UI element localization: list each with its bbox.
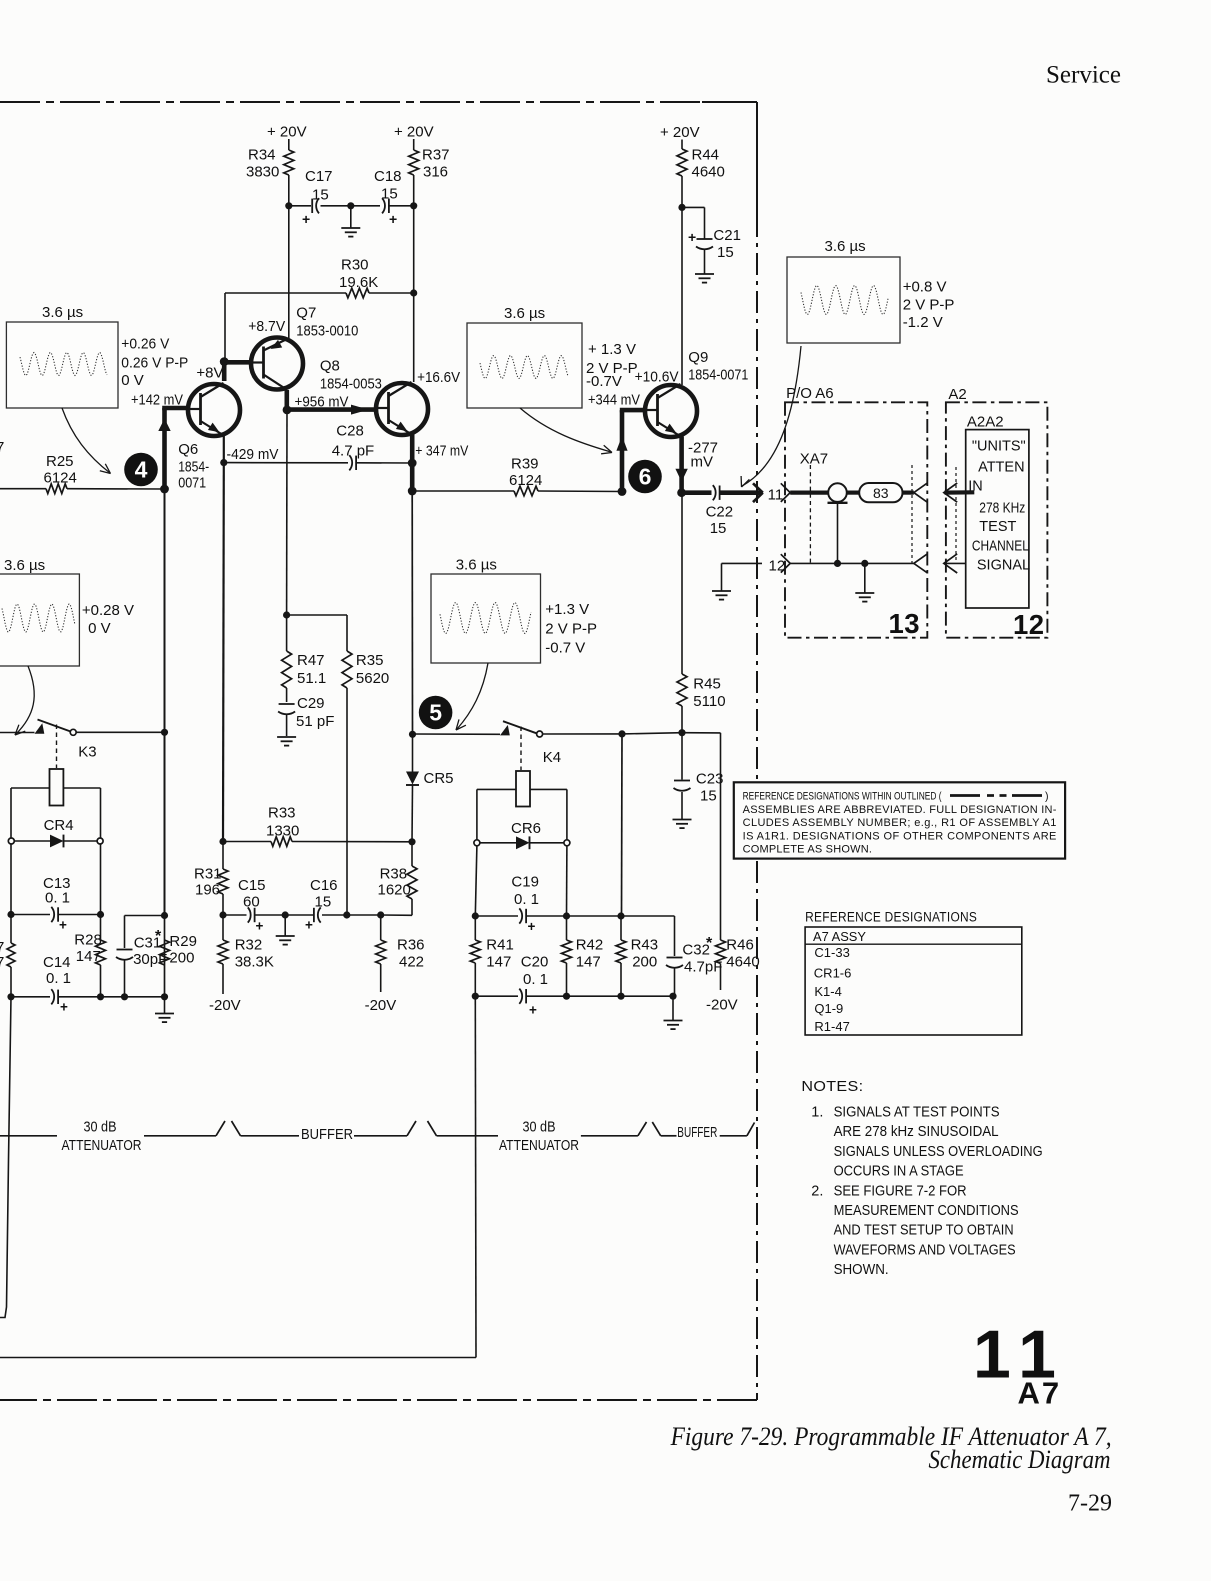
svg-text:R43: R43: [631, 937, 659, 954]
svg-text:R28: R28: [74, 932, 102, 949]
waveform box 3.6us +0.26V (TP4): [6, 304, 188, 408]
svg-text:IS A1R1. DESIGNATIONS OF OTHE: IS A1R1. DESIGNATIONS OF OTHER COMPONENT…: [743, 830, 1057, 842]
resistor R27 (cut at page edge): [0, 915, 15, 997]
svg-text:5110: 5110: [693, 693, 725, 710]
bracket lines section 2: [354, 1121, 498, 1136]
assembly box P/O A6: [785, 385, 927, 638]
svg-text:2 V P-P: 2 V P-P: [903, 297, 955, 314]
bracket lines section 3: [581, 1122, 677, 1136]
node +20V (R44): [660, 124, 700, 149]
svg-text:147: 147: [486, 954, 511, 971]
resistor R28 147: [74, 915, 105, 997]
relay contact K4: [413, 721, 626, 766]
svg-text:XA7: XA7: [800, 451, 828, 468]
svg-text:CR1-6: CR1-6: [814, 966, 852, 981]
svg-text:BUFFER: BUFFER: [301, 1126, 353, 1143]
svg-text:A7: A7: [1018, 1376, 1062, 1411]
svg-text:+: +: [302, 211, 310, 227]
label buffer 2: [677, 1124, 717, 1141]
assembly box A2: [946, 386, 1048, 638]
resistor R41 147: [470, 916, 514, 996]
capacitor C22 15: [706, 485, 734, 537]
svg-text:+16.6V: +16.6V: [417, 369, 460, 386]
svg-text:Q8: Q8: [320, 358, 340, 375]
wire pin11 inside A6 (thick): [790, 491, 859, 495]
svg-text:Q7: Q7: [296, 305, 316, 322]
svg-text:-20V: -20V: [209, 997, 241, 1014]
capacitor C23 15: [674, 733, 724, 819]
svg-text:15: 15: [381, 186, 398, 203]
svg-text:R25: R25: [46, 453, 74, 470]
svg-text:ATTENUATOR: ATTENUATOR: [62, 1137, 142, 1154]
wire Q6 collector to Q7 base +8V (thick): [220, 357, 251, 381]
A2 input pins: [944, 483, 975, 573]
resistor R38 1620: [378, 842, 418, 916]
wire left pad column down to page bottom: [0, 997, 11, 1318]
svg-text:0. 1: 0. 1: [46, 970, 71, 987]
svg-text:+ 20V: + 20V: [394, 124, 434, 141]
capacitor C32* 4.7pF: [666, 935, 722, 996]
coax shield symbol: [828, 483, 848, 567]
resistor R29 200: [160, 933, 197, 967]
svg-text:15: 15: [710, 520, 727, 537]
svg-text:2 V P-P: 2 V P-P: [545, 621, 597, 638]
ground (C21): [695, 274, 714, 283]
wire bottom left return: [0, 1357, 476, 1359]
resistor R35 5620: [342, 615, 389, 915]
test point 6: [628, 460, 662, 494]
svg-text:Service: Service: [1046, 62, 1121, 89]
svg-text:-1.2 V: -1.2 V: [903, 314, 943, 331]
node +10.6V: [635, 369, 679, 386]
svg-text:R30: R30: [341, 257, 369, 274]
resistor R43 200: [616, 734, 658, 996]
pointer arrow waveform to K3: [15, 666, 34, 735]
svg-text:CR5: CR5: [424, 770, 454, 787]
svg-text:C1-33: C1-33: [814, 945, 849, 960]
resistor R47 51.1: [282, 615, 327, 688]
svg-text:30 dB: 30 dB: [523, 1119, 556, 1136]
svg-text:R35: R35: [356, 652, 384, 669]
svg-text:-20V: -20V: [706, 997, 738, 1014]
svg-text:15: 15: [717, 244, 734, 261]
node +20V (R34): [267, 124, 307, 151]
svg-text:ATTENUATOR: ATTENUATOR: [499, 1137, 579, 1154]
wire CR6 to C19 row: [475, 846, 567, 916]
svg-text:Q9: Q9: [688, 349, 708, 366]
wire CR4 to C13 row: [11, 844, 101, 915]
svg-text:+: +: [305, 918, 313, 933]
svg-text:COMPLETE AS SHOWN.: COMPLETE AS SHOWN.: [743, 844, 873, 856]
assembly boundary dash-dot border bottom: [0, 1399, 757, 1401]
svg-text:1854-: 1854-: [178, 459, 209, 476]
svg-text:+: +: [256, 919, 264, 934]
svg-text:3.6 µs: 3.6 µs: [42, 304, 83, 321]
relay coil K3: [50, 725, 64, 806]
svg-text:NOTES:: NOTES:: [801, 1079, 863, 1095]
svg-text:+956 mV: +956 mV: [295, 394, 349, 411]
transistor Q7 1853-0010: [251, 305, 358, 390]
svg-text:19.6K: 19.6K: [339, 274, 378, 291]
svg-text:15: 15: [312, 187, 329, 204]
test point 4: [124, 453, 158, 487]
resistor R34 3830: [246, 147, 294, 206]
label 30 dB attenuator 1: [62, 1119, 142, 1155]
svg-text:7: 7: [0, 439, 4, 456]
svg-text:200: 200: [632, 954, 657, 971]
svg-text:SIGNALS UNLESS OVERLOADING: SIGNALS UNLESS OVERLOADING: [834, 1144, 1043, 1160]
svg-text:R37: R37: [422, 147, 450, 164]
svg-text:+0.28 V: +0.28 V: [82, 602, 134, 619]
svg-text:SIGNAL: SIGNAL: [977, 558, 1030, 574]
pointer arrow waveform to TP4: [62, 408, 111, 474]
svg-text:4640: 4640: [726, 954, 759, 971]
transistor Q8 1854-0053: [320, 358, 428, 436]
svg-text:ARE 278 kHz SINUSOIDAL: ARE 278 kHz SINUSOIDAL: [834, 1124, 999, 1140]
table reference designations: [805, 910, 1022, 1036]
svg-text:15: 15: [315, 894, 332, 911]
svg-text:C19: C19: [511, 874, 539, 891]
svg-text:5: 5: [429, 700, 442, 726]
svg-text:ATTEN: ATTEN: [978, 460, 1024, 476]
svg-text:TEST: TEST: [979, 519, 1016, 535]
wire Q8 emitter down (thick): [408, 434, 417, 496]
resistor R42 147: [562, 916, 604, 996]
svg-text:WAVEFORMS AND VOLTAGES: WAVEFORMS AND VOLTAGES: [834, 1242, 1016, 1258]
svg-text:0 V: 0 V: [121, 372, 144, 389]
svg-text:+10.6V: +10.6V: [635, 369, 679, 386]
pointer arrow waveform to pin 11 wire: [741, 346, 801, 487]
svg-text:R47: R47: [297, 652, 325, 669]
capacitor C29 51 pF: [278, 688, 334, 736]
svg-text:0. 1: 0. 1: [45, 890, 70, 907]
svg-text:C14: C14: [43, 954, 71, 971]
svg-text:7-29: 7-29: [1068, 1491, 1112, 1517]
svg-text:4.7 pF: 4.7 pF: [332, 443, 375, 460]
bracket lines section 1: [0, 1121, 299, 1136]
wire K4 coil terminals: [477, 789, 567, 840]
capacitor C21 15: [682, 207, 741, 273]
svg-text:C22: C22: [706, 504, 734, 521]
svg-text:R45: R45: [693, 676, 721, 693]
node +142 mV: [131, 392, 183, 409]
svg-text:5620: 5620: [356, 670, 389, 687]
svg-text:-429 mV: -429 mV: [227, 446, 279, 463]
svg-text:+: +: [389, 211, 397, 227]
svg-text:C29: C29: [297, 695, 325, 712]
resistor R39 6124: [412, 456, 622, 496]
connector dashed line A2: [955, 467, 957, 563]
svg-text:7: 7: [0, 954, 4, 971]
label buffer 1: [301, 1126, 353, 1143]
svg-text:Q6: Q6: [178, 441, 198, 458]
svg-text:6124: 6124: [44, 470, 77, 487]
svg-text:CR4: CR4: [44, 817, 74, 834]
node -277 mV: [688, 440, 718, 471]
wire col E ground stem: [164, 997, 166, 1013]
assembly boundary dash-dot border top: [0, 101, 757, 103]
svg-text:196: 196: [195, 882, 220, 899]
svg-text:3.6 µs: 3.6 µs: [825, 238, 866, 255]
svg-text:+0.26 V: +0.26 V: [121, 336, 169, 353]
svg-text:147: 147: [76, 948, 101, 965]
note box reference designations abbreviations: [734, 782, 1065, 858]
resistor R46 4640: [716, 733, 760, 990]
resistor R45 5110: [677, 493, 726, 733]
svg-text:R42: R42: [576, 937, 604, 954]
svg-text:R32: R32: [235, 937, 263, 954]
svg-text:12: 12: [1013, 609, 1044, 640]
resistor R31 196: [194, 842, 228, 916]
svg-text:15: 15: [700, 788, 717, 805]
svg-text:C21: C21: [713, 227, 741, 244]
wire pin12 ground stub outside: [712, 563, 762, 599]
svg-text:C15: C15: [238, 877, 266, 894]
svg-text:316: 316: [423, 164, 448, 181]
label 30 dB attenuator 2: [499, 1119, 579, 1155]
svg-text:38.3K: 38.3K: [235, 954, 274, 971]
svg-text:1330: 1330: [266, 823, 299, 840]
connector dashed line right: [911, 465, 913, 563]
node + 347 mV: [415, 443, 468, 460]
wire R30 left leg down to +8V node: [224, 293, 226, 362]
svg-text:+0.8 V: +0.8 V: [903, 279, 947, 296]
svg-text:+8V: +8V: [196, 365, 223, 382]
svg-text:0071: 0071: [178, 475, 206, 492]
section logo 11 A7: [973, 1316, 1067, 1410]
svg-text:C18: C18: [374, 168, 402, 185]
relay contact K3: [0, 720, 168, 761]
svg-text:+: +: [60, 1000, 68, 1015]
wire Q6 emitter column: [222, 435, 225, 842]
wire Q7 collector down (thick): [283, 390, 292, 414]
svg-text:1853-0010: 1853-0010: [296, 323, 358, 340]
svg-text:ASSEMBLIES ARE ABBREVIATED. F: ASSEMBLIES ARE ABBREVIATED. FULL DESIGNA…: [743, 804, 1057, 816]
node -20V (R32): [209, 997, 241, 1014]
svg-text:Q1-9: Q1-9: [814, 1001, 843, 1016]
svg-text:0.26 V P-P: 0.26 V P-P: [121, 355, 188, 372]
ground (C15/C16 mid): [276, 915, 295, 945]
svg-text:R31: R31: [194, 866, 222, 883]
svg-text:CLUDES ASSEMBLY NUMBER; e.g.,: CLUDES ASSEMBLY NUMBER; e.g., R1 OF ASSE…: [743, 817, 1057, 829]
figure caption: [670, 1422, 1112, 1474]
svg-text:SEE FIGURE 7-2 FOR: SEE FIGURE 7-2 FOR: [834, 1183, 967, 1199]
node +16.6V: [417, 369, 460, 386]
svg-text:-0.7 V: -0.7 V: [545, 640, 585, 657]
svg-text:422: 422: [399, 954, 424, 971]
pointer arrow waveform to K4 wire: [456, 663, 488, 730]
resistor R25 6124: [0, 453, 169, 494]
svg-text:51 pF: 51 pF: [296, 713, 334, 730]
wire col E K3 to C31 jog: [164, 489, 166, 997]
resistor R30 19.6K: [225, 257, 417, 298]
svg-text:R41: R41: [486, 937, 514, 954]
svg-text:-0.7V: -0.7V: [586, 373, 622, 390]
svg-text:1.: 1.: [811, 1105, 823, 1121]
wire Q8 emitter to CR5: [411, 491, 413, 734]
capacitor C28 4.7 pF: [220, 423, 412, 471]
svg-text:A7 ASSY: A7 ASSY: [813, 929, 866, 944]
ground (pad 1): [155, 1014, 174, 1023]
resistor R33 1330: [219, 805, 415, 847]
capacitor C18 15: [374, 168, 402, 227]
svg-text:1854-0053: 1854-0053: [320, 376, 382, 393]
node -20V (R36): [365, 997, 397, 1014]
svg-text:OCCURS IN A STAGE: OCCURS IN A STAGE: [834, 1164, 964, 1180]
wire +956 mV Q7 to Q8 base (thick with arrow): [287, 394, 374, 415]
svg-text:0 V: 0 V: [88, 620, 111, 637]
box A2A2 UNITS ATTEN: [966, 414, 1030, 609]
svg-text:3.6 µs: 3.6 µs: [456, 557, 497, 574]
svg-text:): ): [1045, 791, 1049, 803]
wire K3 coil terminals: [11, 788, 101, 838]
svg-text:3830: 3830: [246, 164, 279, 181]
svg-text:CHANNEL: CHANNEL: [972, 539, 1029, 555]
wire pin12 inside A6: [790, 560, 914, 602]
svg-text:CR6: CR6: [511, 820, 541, 837]
wire Q9 emitter down to C22 (thick): [675, 437, 711, 498]
svg-text:*: *: [706, 935, 713, 952]
test point 5: [419, 696, 453, 730]
svg-text:147: 147: [576, 954, 601, 971]
capacitor C13 0.1: [7, 875, 104, 933]
transistor Q6 1854-0071: [178, 383, 240, 492]
wire R44 down to Q9 collector: [681, 207, 683, 385]
svg-text:REFERENCE DESIGNATIONS WITHIN: REFERENCE DESIGNATIONS WITHIN OUTLINED (: [743, 791, 942, 803]
svg-text:R36: R36: [397, 937, 425, 954]
svg-text:SIGNALS AT TEST POINTS: SIGNALS AT TEST POINTS: [834, 1105, 1000, 1121]
svg-text:R33: R33: [268, 805, 296, 822]
svg-text:C23: C23: [696, 771, 724, 788]
assembly boundary dash-dot border right: [702, 102, 757, 1400]
capacitor C17 15: [302, 168, 333, 227]
wire R39 junction up to Q9 base (thick): [616, 410, 645, 496]
transistor Q9 1854-0071: [645, 349, 748, 437]
svg-text:+: +: [528, 919, 536, 934]
waveform box 3.6us +1.3V (TP5/K4): [431, 557, 597, 664]
wire top bypass rail: [285, 202, 417, 209]
svg-text:278 KHz: 278 KHz: [979, 501, 1025, 517]
svg-text:3.6 µs: 3.6 µs: [4, 557, 45, 574]
section number 13: [889, 608, 920, 639]
svg-text:mV: mV: [691, 454, 714, 471]
resistor R36 422: [376, 915, 425, 992]
svg-text:C20: C20: [521, 954, 549, 971]
svg-text:R29: R29: [169, 933, 197, 950]
svg-text:*: *: [155, 928, 162, 945]
svg-text:51.1: 51.1: [297, 670, 326, 687]
svg-text:+344 mV: +344 mV: [588, 392, 640, 409]
fragment cut label left edge: [0, 439, 4, 456]
svg-text:REFERENCE DESIGNATIONS: REFERENCE DESIGNATIONS: [805, 910, 977, 925]
diode CR6: [474, 820, 570, 849]
node -20V (R46): [706, 997, 738, 1014]
svg-text:12: 12: [769, 558, 786, 575]
notes text: [801, 1079, 1042, 1278]
svg-text:+ 20V: + 20V: [267, 124, 307, 141]
svg-text:+1.3 V: +1.3 V: [545, 601, 589, 618]
svg-text:+ 20V: + 20V: [660, 124, 700, 141]
section number 12: [1013, 609, 1044, 640]
svg-text:R39: R39: [511, 456, 539, 473]
capacitor C19 0.1: [472, 874, 570, 935]
bracket lines section 4: [720, 1123, 755, 1136]
svg-text:R38: R38: [380, 866, 408, 883]
svg-text:-20V: -20V: [365, 997, 397, 1014]
svg-text:A2: A2: [948, 386, 966, 403]
svg-text:4: 4: [135, 457, 148, 483]
wire R37 junction down to Q8 collector: [413, 206, 415, 382]
pin chevrons right side of A6: [914, 483, 927, 572]
svg-text:A2A2: A2A2: [967, 414, 1004, 431]
svg-text:13: 13: [889, 608, 920, 639]
svg-text:C17: C17: [305, 168, 333, 185]
svg-text:4640: 4640: [692, 164, 725, 181]
resistor R37 316: [409, 147, 450, 206]
svg-text:MEASUREMENT CONDITIONS: MEASUREMENT CONDITIONS: [834, 1203, 1019, 1219]
node -429 mV: [227, 446, 279, 463]
svg-text:30 dB: 30 dB: [84, 1119, 117, 1136]
wire C19 row to R43/C32: [567, 912, 675, 956]
svg-text:6124: 6124: [509, 472, 542, 489]
wire C16 row to R36/R38: [347, 911, 412, 918]
wire R34 down to Q7 emitter: [288, 206, 290, 339]
pin 11: [768, 483, 791, 503]
svg-text:K4: K4: [543, 749, 561, 766]
svg-text:R34: R34: [248, 147, 276, 164]
svg-text:K1-4: K1-4: [814, 984, 841, 999]
svg-text:0. 1: 0. 1: [523, 971, 548, 988]
node +8V: [196, 365, 223, 382]
svg-text:+8.7V: +8.7V: [248, 318, 285, 335]
svg-text:+ 1.3 V: + 1.3 V: [588, 341, 636, 358]
svg-text:83: 83: [873, 485, 889, 501]
wire Q7 collector column to R47: [283, 410, 347, 619]
pointer arrow waveform to Q9 node: [520, 408, 612, 454]
node +8.7V: [248, 318, 285, 335]
svg-text:1854-0071: 1854-0071: [688, 367, 748, 384]
svg-text:200: 200: [169, 950, 194, 967]
capacitor C20 0.1: [472, 954, 677, 1018]
capacitor C31* 30pF: [116, 912, 168, 1001]
wire R41 column to bottom box: [474, 996, 477, 1357]
svg-text:+ 347 mV: + 347 mV: [415, 443, 468, 460]
Service page header: [1046, 62, 1121, 89]
connector XA7 dashed line: [800, 451, 828, 564]
relay coil K4: [516, 727, 530, 807]
svg-text:+: +: [529, 1003, 537, 1018]
svg-text:IN: IN: [968, 479, 983, 495]
resistor R44 4640: [677, 147, 725, 211]
ground (C29): [277, 737, 296, 746]
svg-text:+: +: [59, 918, 67, 933]
svg-text:R46: R46: [726, 937, 754, 954]
resistor R32 38.3K: [218, 915, 274, 994]
svg-text:3.6 µs: 3.6 µs: [504, 305, 545, 322]
node +20V (R37): [394, 124, 434, 151]
svg-text:60: 60: [243, 894, 260, 911]
wire C22 to connector arrow (thick): [720, 483, 763, 502]
wire K4 row to R45/R46: [622, 729, 721, 736]
capacitor C15 60: [219, 877, 288, 934]
attenuator value 83 oval: [859, 483, 914, 502]
capacitor C16 15: [285, 877, 350, 933]
svg-text:P/O A6: P/O A6: [786, 385, 834, 402]
svg-text:BUFFER: BUFFER: [677, 1124, 717, 1141]
svg-text:0. 1: 0. 1: [514, 891, 539, 908]
waveform box 3.6us +1.3V (TP6): [467, 305, 640, 409]
svg-text:SHOWN.: SHOWN.: [834, 1262, 889, 1278]
